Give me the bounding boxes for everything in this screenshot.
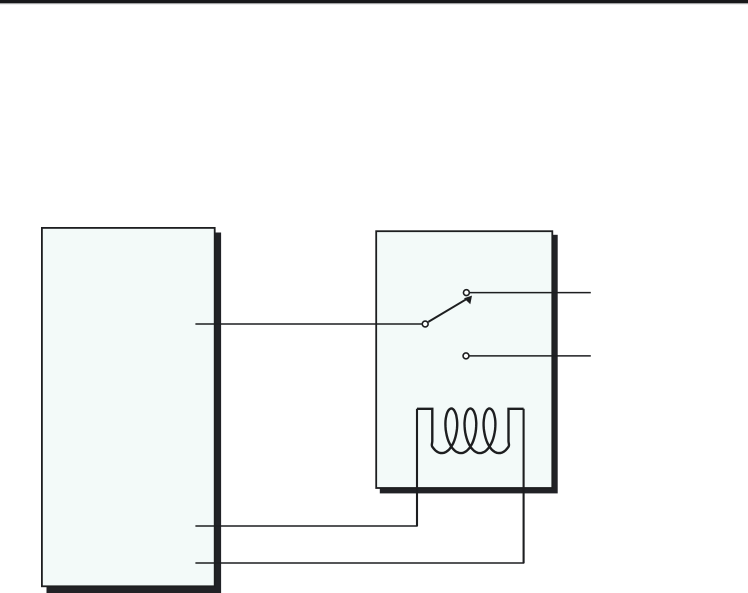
right box (relay block) <box>376 231 552 488</box>
wire from NC contact to right <box>469 355 590 357</box>
shadow of right box <box>380 235 558 494</box>
wire coil-right to driver <box>195 562 524 564</box>
wire coil-left to driver <box>195 525 417 527</box>
NC contact circle (bottom) <box>463 353 469 359</box>
top rule bar <box>0 0 748 3</box>
switch blade <box>428 299 467 322</box>
relay coil <box>417 409 524 454</box>
coil left lead <box>416 409 418 526</box>
left box (driver block) <box>42 228 215 586</box>
blade arrowhead <box>464 296 472 305</box>
coil right lead <box>523 409 525 563</box>
shadow of left box <box>47 233 222 593</box>
switch common contact circle <box>422 321 428 327</box>
wire from NO contact to right <box>470 292 591 294</box>
wire to switch common <box>195 323 421 325</box>
NO contact circle (top) <box>463 290 469 296</box>
